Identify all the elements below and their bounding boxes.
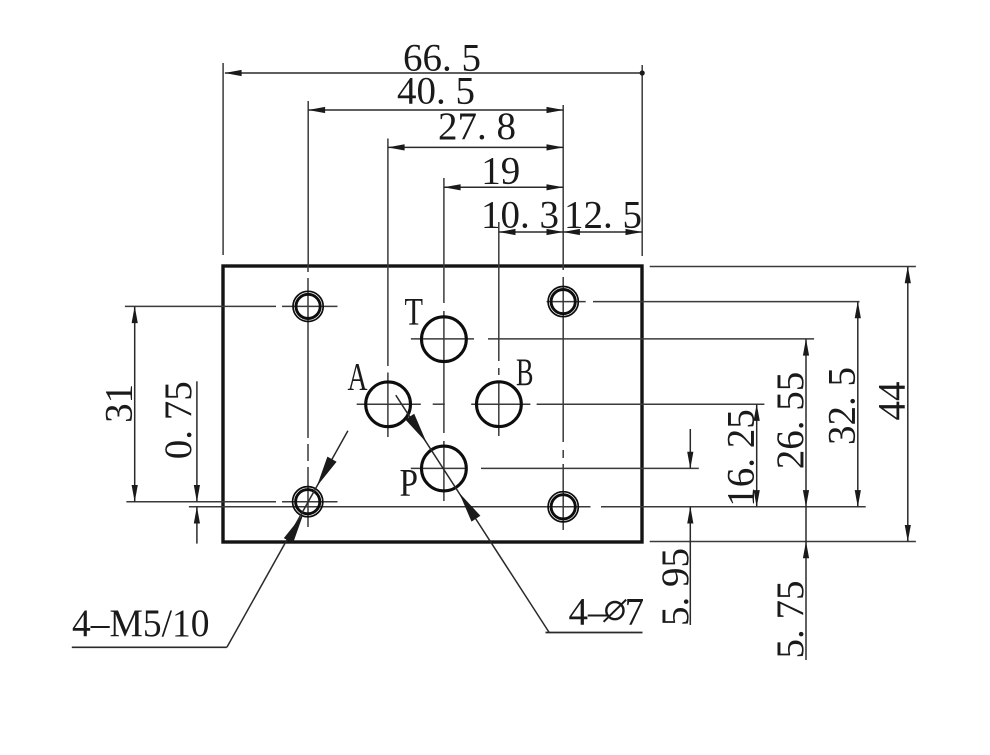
extension line: right hole column (top) [562, 105, 564, 266]
centerline: right hole column (dash-dot) [562, 266, 564, 530]
port hole A [366, 382, 411, 427]
dimension 66.5 line [225, 72, 642, 74]
centerline: bottom-right hole row [189, 506, 591, 508]
extension line: T/P column (top) [443, 178, 445, 266]
dimension 16.25 line [756, 404, 758, 507]
leader 4-dia7 arrow lower [459, 493, 480, 522]
mounting hole top-right (M5) [548, 287, 578, 317]
mounting hole bottom-right (M5) [548, 492, 578, 522]
dimension 5.75 connector line [805, 507, 807, 542]
centerline: left hole column (dash-dot) [307, 266, 309, 527]
extension line: plate top edge (right) [650, 266, 916, 268]
svg-text:12. 5: 12. 5 [564, 194, 642, 237]
svg-text:0. 75: 0. 75 [157, 381, 200, 459]
svg-text:16. 25: 16. 25 [720, 409, 763, 507]
dimension 0.75 upper line [196, 381, 198, 501]
svg-text:10. 3: 10. 3 [481, 194, 559, 237]
svg-text:A: A [348, 355, 368, 398]
dimension 27.8 line [388, 146, 563, 148]
leader 4-M5/10 arrow lower [284, 514, 304, 544]
dimension 5.75 lower line [805, 542, 807, 661]
leader 4-dia7 underline [546, 632, 643, 634]
extension line: port B column (top) [498, 222, 500, 361]
centerline: port T row [411, 338, 474, 340]
port hole T [422, 317, 467, 362]
svg-text:4–M5/10: 4–M5/10 [72, 602, 210, 645]
dimension 31 line [134, 306, 136, 501]
dimension 10.3 line [499, 231, 563, 233]
dimension 5.95 lower line [689, 507, 691, 625]
dimension 5.95 upper line [689, 429, 691, 468]
svg-text:4–: 4– [569, 591, 609, 634]
dimension 0.75 lower line [196, 507, 198, 544]
dimension 12.5 line [563, 231, 642, 233]
svg-text:5. 75: 5. 75 [769, 581, 812, 659]
dimension 19 line [444, 186, 563, 188]
centerline: top-right hole row [547, 301, 586, 303]
svg-text:44: 44 [871, 382, 914, 421]
centerline: A column (dash-dot) [387, 266, 389, 437]
extension line: left hole column (top) [307, 101, 309, 266]
dimension 32.5 line [857, 302, 859, 507]
svg-text:B: B [516, 351, 534, 394]
leader 4-dia7 arrow upper [405, 414, 426, 443]
centerline: bottom-left hole row [126, 501, 276, 503]
port hole B [477, 382, 522, 427]
centerline: port P row [411, 467, 466, 469]
svg-text:31: 31 [98, 384, 141, 423]
leader 4-dia7 line [396, 395, 549, 632]
dimension 26.55 line [805, 339, 807, 507]
centerline: port A/B row [357, 403, 421, 405]
plate outline [223, 266, 642, 542]
leader 4-M5/10 line [227, 431, 348, 648]
svg-text:T: T [405, 291, 424, 334]
svg-text:19: 19 [481, 150, 520, 193]
leader 4-M5/10 underline [72, 646, 227, 648]
svg-text:27. 8: 27. 8 [438, 105, 516, 148]
leader 4-M5/10 arrow upper [317, 457, 337, 487]
svg-text:P: P [400, 461, 419, 504]
extension line: plate bottom edge (right) [650, 541, 916, 543]
svg-text:32. 5: 32. 5 [821, 367, 864, 445]
extension line: plate right edge (top) [641, 65, 643, 256]
mounting hole bottom-left (M5) [293, 487, 323, 517]
centerline: T/P column (dash-dot) [443, 266, 445, 501]
port hole P [422, 446, 467, 491]
svg-text:7: 7 [625, 591, 645, 634]
centerline: top-left hole row [125, 305, 276, 307]
extension line: port A column (top) [387, 139, 389, 267]
svg-text:26. 55: 26. 55 [769, 372, 812, 470]
centerline: B column (dash-dot) [498, 368, 500, 436]
dimension 40.5 line [308, 109, 563, 111]
extension line: plate left edge (top) [222, 63, 224, 255]
dimension 44 line [907, 267, 909, 542]
svg-text:5. 95: 5. 95 [654, 548, 697, 626]
mounting hole top-left (M5) [293, 291, 323, 321]
